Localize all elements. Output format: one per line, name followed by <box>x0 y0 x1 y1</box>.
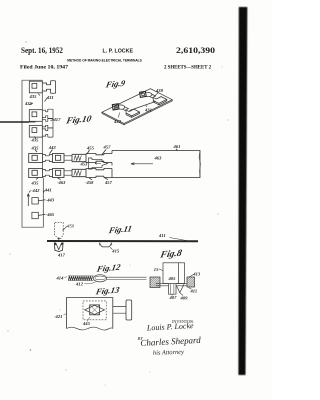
svg-text:405: 405 <box>168 276 177 281</box>
svg-text:Fig.12: Fig.12 <box>95 262 122 274</box>
svg-text:417: 417 <box>57 252 66 257</box>
svg-text:411: 411 <box>190 289 198 294</box>
svg-text:METHOD OF MAKING ELECTRICAL TE: METHOD OF MAKING ELECTRICAL TERMINALS <box>67 57 142 62</box>
svg-text:Fig.9: Fig.9 <box>104 78 127 90</box>
svg-text:459: 459 <box>67 223 75 228</box>
svg-text:441: 441 <box>44 187 52 192</box>
svg-text:Sept. 16, 1952: Sept. 16, 1952 <box>21 46 63 55</box>
svg-text:412: 412 <box>75 282 84 287</box>
svg-text:455: 455 <box>86 146 95 151</box>
svg-text:his Attorney: his Attorney <box>153 349 184 357</box>
svg-text:453: 453 <box>80 161 89 166</box>
svg-text:443: 443 <box>48 145 57 150</box>
svg-text:Fig.8: Fig.8 <box>158 248 183 261</box>
svg-text:435: 435 <box>31 181 40 186</box>
svg-text:409: 409 <box>180 296 189 301</box>
svg-text:445: 445 <box>82 321 91 326</box>
svg-text:431: 431 <box>46 95 54 100</box>
svg-text:417: 417 <box>53 117 62 122</box>
svg-text:435: 435 <box>29 94 38 99</box>
svg-text:435: 435 <box>31 145 40 150</box>
svg-text:463: 463 <box>154 155 163 160</box>
svg-text:-458: -458 <box>85 180 94 185</box>
svg-text:Fig.13: Fig.13 <box>94 285 121 297</box>
svg-text:Fig.11: Fig.11 <box>107 223 133 235</box>
svg-text:435: 435 <box>24 101 33 106</box>
svg-text:Charles Shepard: Charles Shepard <box>140 335 201 348</box>
svg-text:-463: -463 <box>57 180 66 185</box>
svg-text:Filed June 10, 1947: Filed June 10, 1947 <box>20 66 69 71</box>
svg-text:Fig.10: Fig.10 <box>65 114 93 126</box>
svg-text:438: 438 <box>155 88 164 93</box>
svg-text:-465: -465 <box>46 212 55 217</box>
svg-text:433: 433 <box>113 119 122 124</box>
svg-text:2,610,390: 2,610,390 <box>176 46 215 55</box>
svg-text:431: 431 <box>144 108 152 113</box>
svg-text:15: 15 <box>154 267 159 272</box>
svg-text:-421: -421 <box>54 314 62 319</box>
svg-text:415: 415 <box>111 248 120 253</box>
svg-text:2 SHEETS—SHEET 2: 2 SHEETS—SHEET 2 <box>164 66 212 71</box>
svg-text:435: 435 <box>31 137 40 142</box>
svg-text:411: 411 <box>158 233 166 238</box>
svg-text:L. P. LOCKE: L. P. LOCKE <box>103 48 134 54</box>
svg-text:461: 461 <box>173 144 181 149</box>
svg-text:414: 414 <box>56 275 65 280</box>
svg-text:457: 457 <box>103 145 112 150</box>
svg-text:413: 413 <box>192 271 201 276</box>
svg-text:-443: -443 <box>46 197 55 202</box>
svg-text:Louis P. Locke: Louis P. Locke <box>146 321 195 333</box>
svg-text:407: 407 <box>169 295 178 300</box>
svg-text:-442: -442 <box>31 188 40 193</box>
svg-text:457: 457 <box>104 180 113 185</box>
